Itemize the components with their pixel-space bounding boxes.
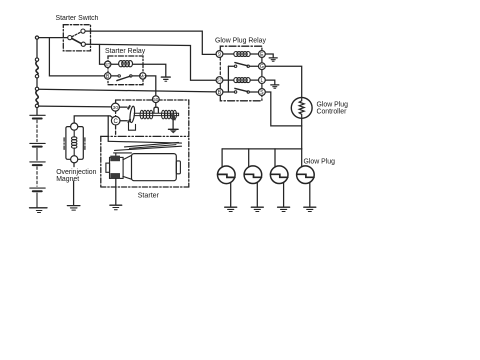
label Glow Plug Relay <box>215 37 266 44</box>
wire between fusible links <box>36 78 38 87</box>
svg-text:Controller: Controller <box>317 109 348 116</box>
glow plug relay terminal S <box>259 89 266 96</box>
wire motor to ground <box>115 179 117 205</box>
wire branch to starter relay ST <box>100 45 105 65</box>
wire C to fixed contact <box>120 120 127 122</box>
glow plug 1 <box>218 166 236 184</box>
solenoid hold-in coil <box>162 110 177 119</box>
label Overinjection Magnet <box>56 169 96 183</box>
glow plug 4 <box>297 166 315 184</box>
ground glow plug 3 <box>278 207 290 211</box>
starter switch upper contact <box>81 29 85 33</box>
solenoid fixed contact lower <box>127 118 131 123</box>
glow plug 2 <box>244 166 262 184</box>
label Glow Plug Controller <box>317 102 349 116</box>
wire L to ground <box>265 80 275 84</box>
starter motor end cap <box>176 161 180 174</box>
solenoid moving contact bridge <box>154 107 159 113</box>
glow plug controller <box>291 98 312 119</box>
svg-text:S: S <box>260 90 264 96</box>
wire Mg to starter terminal 50 <box>146 76 156 96</box>
wire switch common bus <box>227 66 229 92</box>
starter relay switch <box>111 75 140 81</box>
starter switch blade solid to lower contact <box>72 39 81 44</box>
svg-text:C: C <box>114 119 119 125</box>
glow plug relay box <box>220 46 262 101</box>
starter relay terminal Mg <box>140 73 147 79</box>
starter relay box <box>108 56 143 85</box>
starter relay terminal B <box>105 73 111 80</box>
ground overinjection magnet <box>67 206 80 211</box>
wire glow plug 3 to ground <box>283 182 285 207</box>
wire starter switch upper contact to glow plug relay terminal 9 <box>85 31 216 54</box>
wire drop glow plug 2 <box>248 149 250 167</box>
svg-text:L: L <box>260 78 263 84</box>
starter relay coil <box>111 61 133 67</box>
motor lever wire lower <box>115 146 182 150</box>
glow plug 3 <box>270 166 288 184</box>
svg-text:Magnet: Magnet <box>56 176 79 183</box>
wire controller to glow plug bus <box>301 118 303 149</box>
glow plug relay coil 2 <box>223 78 259 83</box>
ground L <box>271 85 279 88</box>
svg-text:30: 30 <box>113 105 119 111</box>
svg-text:Mg: Mg <box>140 74 147 79</box>
wire drop glow plug 4 <box>301 149 303 167</box>
wire fusible link to starter terminal 30 <box>39 105 112 108</box>
glow plug relay terminal 9 <box>216 51 223 58</box>
wire drop glow plug 1 <box>221 149 223 167</box>
starter box magnetic switch section <box>101 100 189 187</box>
starter switch lower contact <box>81 42 85 46</box>
solenoid pull-in coil <box>140 110 153 119</box>
starter switch blade dashed to upper contact <box>72 32 81 37</box>
svg-text:ST: ST <box>105 62 111 67</box>
glow plug relay coil 1 <box>223 52 259 57</box>
glow plug relay terminal G <box>259 63 266 70</box>
starter terminal C <box>111 116 120 125</box>
svg-text:Glow Plug: Glow Plug <box>304 159 336 166</box>
svg-text:50: 50 <box>153 97 159 102</box>
starter drive housing <box>110 157 124 178</box>
battery <box>30 115 45 207</box>
wire drop glow plug 3 <box>274 149 276 167</box>
ground glow plug 2 <box>251 207 263 211</box>
label Starter Relay <box>105 48 146 55</box>
glow plug relay terminal L <box>259 77 266 84</box>
node junction at battery feed <box>35 36 38 39</box>
svg-text:9: 9 <box>218 52 221 58</box>
label Starter Switch <box>56 15 99 22</box>
wire fusible link to glow plug relay B <box>39 89 217 92</box>
motor lever wire middle <box>130 145 177 149</box>
overinjection magnet coil <box>72 130 77 156</box>
ground E <box>269 58 277 61</box>
motor lever wire upper <box>125 142 179 147</box>
wire to field coil <box>108 141 181 143</box>
starter motor nose <box>123 155 132 179</box>
starter switch box <box>63 25 90 51</box>
solenoid core hatch <box>171 114 176 120</box>
svg-text:Starter Relay: Starter Relay <box>105 48 146 55</box>
motor brush connector <box>114 153 132 156</box>
svg-text:G: G <box>260 64 264 70</box>
ground starter relay <box>161 77 170 81</box>
svg-text:E: E <box>260 52 264 58</box>
wire down to fusible link 1 <box>36 39 38 58</box>
solenoid return linkage <box>129 123 136 130</box>
starter terminal 30 <box>111 103 119 111</box>
wire branch to starter relay B <box>49 38 104 76</box>
solenoid plunger rod <box>134 113 178 115</box>
starter relay terminal ST <box>105 61 111 67</box>
overinjection magnet body <box>66 123 83 163</box>
ground glow plug 4 <box>304 207 316 211</box>
wire 50 to solenoid bridge <box>155 103 157 108</box>
wire battery to starter switch pivot <box>37 37 68 39</box>
starter terminal 50 <box>152 96 159 103</box>
wire solenoid coil to ground <box>172 120 174 129</box>
wire fusible link to battery <box>36 108 38 115</box>
wire overinjection magnet to ground <box>73 163 75 205</box>
svg-text:ST: ST <box>217 78 223 83</box>
starter switch pivot contact <box>68 36 72 40</box>
glow plug relay terminal E <box>259 51 266 58</box>
starter box motor section <box>101 136 189 187</box>
glow plug relay switch 1 <box>228 63 258 68</box>
label Glow Plug <box>304 159 336 166</box>
wire E to ground <box>265 54 273 58</box>
ground starter motor <box>110 205 122 210</box>
wire glow plug 1 to ground <box>230 182 232 207</box>
fusible link 2 <box>35 87 38 107</box>
wire 30 to fixed contact <box>120 106 128 108</box>
wire C branch to motor <box>107 116 109 141</box>
svg-text:Glow Plug Relay: Glow Plug Relay <box>215 37 266 44</box>
wire S to glow plug bus <box>266 92 302 126</box>
wire starter relay coil to ground <box>133 64 166 76</box>
solenoid fixed contact upper <box>127 105 131 110</box>
glow plug relay terminal B <box>216 89 223 96</box>
starter shaft end <box>106 163 110 172</box>
starter pinion lower <box>110 173 120 179</box>
ground solenoid <box>169 129 179 133</box>
starter motor body <box>132 154 177 181</box>
wire C to overinjection magnet <box>74 116 112 123</box>
fusible link 1 <box>35 58 38 78</box>
svg-text:Starter: Starter <box>138 191 160 199</box>
overinjection magnet box edges <box>64 138 85 150</box>
label Starter <box>138 191 160 199</box>
wire glow plug 4 to ground <box>309 182 311 207</box>
glow plug bus wire <box>222 148 302 150</box>
wire glow plug 2 to ground <box>256 182 258 207</box>
battery ground plate <box>30 208 48 213</box>
glow plug relay terminal ST <box>216 77 223 84</box>
ground glow plug 1 <box>225 207 237 211</box>
starter pinion upper <box>110 156 120 162</box>
solenoid contact disc <box>129 106 135 123</box>
glow plug relay switch 2 <box>223 88 259 93</box>
wire starter switch lower contact to glow plug relay terminal ST <box>85 44 216 80</box>
svg-text:B: B <box>218 90 222 96</box>
svg-text:Starter Switch: Starter Switch <box>56 15 99 22</box>
wire G to glow plug controller <box>265 66 301 97</box>
